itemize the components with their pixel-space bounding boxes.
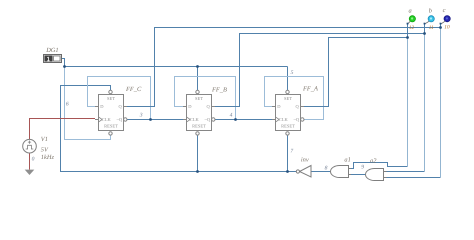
junction node FF_B SET	[196, 65, 199, 68]
wire net11 FF_B Q to second line and probe b and a2 upper input	[212, 25, 425, 172]
svg-text:a: a	[409, 8, 412, 15]
svg-text:RESET: RESET	[281, 124, 295, 129]
svg-text:FF_C: FF_C	[125, 86, 142, 93]
svg-text:7: 7	[290, 149, 293, 155]
svg-text:9: 9	[361, 165, 364, 171]
wire net4 FF_B feedback loop to D	[175, 77, 236, 120]
wire net7 FF_B RESET riser	[197, 135, 199, 171]
wire net3 FF_C feedback loop to D	[88, 77, 151, 120]
switch DG1 digital constant	[44, 55, 62, 63]
probe c blue	[440, 16, 451, 25]
ground	[25, 170, 35, 175]
junction node probe b net11	[423, 32, 426, 35]
svg-text:1kHz: 1kHz	[41, 154, 55, 161]
flip-flop FF_C	[95, 90, 128, 135]
wire net6 horizontal bus y66	[65, 66, 288, 68]
wire net3 FF_C ~Q to FF_B CLK	[127, 119, 187, 121]
svg-text:10: 10	[444, 25, 450, 31]
wire net6 FF_A SET drop	[287, 67, 289, 91]
svg-text:~Q: ~Q	[205, 117, 211, 122]
svg-text:8: 8	[325, 165, 328, 171]
wire net12 FF_A Q to third line and probe a and a1 upper input	[301, 25, 408, 169]
wire net7 FF_A RESET riser	[287, 135, 289, 171]
wire net7 FF_C SET to bottom bus to inverter output	[61, 86, 297, 172]
source V1 square wave	[23, 139, 37, 153]
junction node FF_B RESET on bus	[196, 170, 199, 173]
flip-flop FF_A	[272, 90, 305, 135]
wire net6 left vertical to FF_C RESET	[65, 67, 111, 140]
svg-text:3: 3	[139, 113, 143, 119]
junction node probe a net12	[406, 36, 409, 39]
probe a green	[407, 16, 416, 25]
wire net9 a2 output to a1 lower input	[351, 174, 366, 176]
svg-text:6: 6	[66, 102, 69, 108]
and-gate a2	[366, 169, 387, 181]
svg-text:12: 12	[409, 25, 415, 31]
svg-text:CLK: CLK	[102, 117, 112, 122]
svg-text:SET: SET	[195, 96, 203, 101]
svg-text:0: 0	[32, 156, 35, 162]
wire net6 FF_B SET drop	[197, 67, 199, 91]
wire FF_A ~Q feedback loop to D	[265, 77, 324, 120]
svg-text:DG1: DG1	[45, 47, 58, 54]
svg-text:FF_A: FF_A	[302, 86, 318, 93]
svg-text:~Q: ~Q	[117, 117, 123, 122]
svg-text:~Q: ~Q	[294, 117, 300, 122]
inverter inv	[296, 166, 311, 178]
wire net6 DG1 output stub	[62, 59, 65, 67]
svg-text:V1: V1	[41, 136, 48, 143]
wire net2 V1 to FF_C CLK (red)	[30, 119, 96, 140]
svg-text:5V: 5V	[41, 146, 49, 153]
probe b cyan	[424, 16, 435, 25]
svg-text:SET: SET	[107, 96, 115, 101]
svg-text:RESET: RESET	[192, 124, 206, 129]
wire net8 inverter input from a1 output	[311, 171, 331, 173]
junction node FF_B ~Q feedback	[234, 118, 237, 121]
svg-text:CLK: CLK	[190, 117, 200, 122]
junction node DG1/net6	[63, 65, 66, 68]
svg-text:RESET: RESET	[104, 124, 118, 129]
svg-text:b: b	[429, 8, 432, 15]
svg-text:a2: a2	[370, 157, 377, 164]
svg-text:SET: SET	[284, 96, 292, 101]
svg-text:a1: a1	[344, 156, 350, 163]
svg-text:inv: inv	[301, 157, 309, 164]
svg-text:4: 4	[230, 113, 233, 119]
svg-text:11: 11	[429, 25, 434, 31]
svg-text:CLK: CLK	[279, 117, 289, 122]
junction node FF_C ~Q feedback	[149, 118, 152, 121]
svg-text:5: 5	[291, 70, 294, 76]
svg-text:FF_B: FF_B	[211, 87, 227, 94]
wire net10 FF_C Q to top line and probe c and a2 lower input	[124, 25, 441, 178]
and-gate a1	[331, 166, 352, 178]
wire net4 FF_B ~Q to FF_A CLK	[215, 119, 275, 121]
junction node FF_A RESET on bus	[286, 170, 289, 173]
flip-flop FF_B	[183, 90, 216, 135]
wire net0 V1 to ground (red)	[29, 153, 31, 170]
junction node probe c net10	[439, 26, 442, 29]
svg-text:c: c	[443, 7, 446, 14]
